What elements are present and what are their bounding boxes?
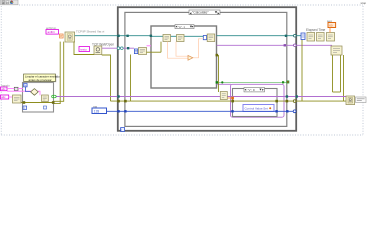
svg-text:"V", D: "V", D [248,88,255,92]
case selector label [189,10,220,15]
svg-text:antes de procesar: antes de procesar [29,78,52,82]
pink terminal (string control) [1,83,11,91]
case structure [125,12,287,126]
while loop [118,7,296,131]
svg-text:"Calculate": "Calculate" [192,11,209,15]
N count terminal [24,83,28,87]
combo constant in structure4 [243,105,274,112]
pane dotted boundary [1,5,363,135]
for loop (small, bottom left) [23,83,54,113]
green boolean wire [217,81,287,83]
wire: error from wait node down [102,55,111,101]
wire: error branch in case [130,55,132,102]
olive tunnels [23,54,289,104]
unbundle blue + read node cluster [134,48,146,55]
pink wire to structure3 [147,45,152,47]
structure 4 selector label [244,88,265,93]
wire: error up to node S1 [160,42,162,53]
violet wire y84.3 [217,83,231,85]
orange stub into structure4 [228,97,233,99]
inner case structure 4 [233,89,278,117]
svg-text:abc: abc [1,95,6,99]
svg-text:texto: texto [81,47,88,51]
toolbar fragment top-left [1,0,19,5]
wire: error loop right leg from node D [340,55,342,92]
structure 3 selector label [175,25,194,29]
wire: error U bottom [333,91,341,93]
wire: error inside for loop [21,102,54,104]
wire: TCP refnum to Elapsed Time cluster [217,35,301,37]
blue numeric constant (left bottom) [92,104,107,113]
small blue glyph bottom right of for loop [44,106,47,109]
structure3: blue glyph + node S3 [203,34,214,42]
violet wire structure3 to elapsed-time cluster [217,44,332,46]
orange conversion node [60,34,64,38]
teal tunnels [117,35,287,37]
svg-text:TCP/IP Shared Var.vi: TCP/IP Shared Var.vi [76,29,105,33]
wire: main error line across loop [111,100,344,102]
white label box right of node E [356,97,367,103]
yellow free label comment [24,74,61,82]
wire: error pair from TCP node down [54,42,64,102]
wire: error into node E [344,55,347,101]
node D [331,46,342,55]
svg-text:60: 60 [329,23,333,27]
svg-text:Elapsed Time: Elapsed Time [306,28,326,32]
wire: violet connection id [102,47,134,49]
TCP Wait On Listener node [94,46,102,55]
wire: error from elapsed cluster down [301,40,303,102]
violet reference frame around structure 4 [231,84,285,117]
string constant (top left) [46,26,59,34]
svg-text:abc: abc [1,87,6,91]
pale orange wires in structure3 [168,39,204,58]
blue wire into diamond [26,87,31,92]
pink terminal 2 [1,95,9,99]
wire: TCP refnum inside structure 3 [151,35,207,37]
node L (write) [13,95,22,103]
i iteration terminal [23,106,27,110]
svg-text:"A", 1: "A", 1 [178,25,185,29]
structure3: node S1 [163,35,171,42]
structure3: node S2 [177,35,185,42]
wire: error TCP node to wait node [74,42,94,55]
svg-text:stop: stop [361,1,367,5]
while loop iteration terminal [121,128,125,132]
blue wire y111.8 [107,110,295,112]
time diamond node [31,89,39,96]
inner case structure 3 [151,26,217,88]
elapsed time nodes R1 R2 R3 [307,33,335,42]
svg-text:anfitri: anfitri [48,30,55,34]
wire: error down structure 3 right edge [218,55,220,92]
svg-text:Control Value:Set: Control Value:Set [245,107,268,111]
svg-text:N: N [24,83,26,87]
node E (bottom right) [346,96,355,105]
svg-text:128: 128 [94,109,100,113]
wire: error from TCP node down to for loop [54,42,60,104]
TCP Open Connection node [65,32,75,42]
node R (read, inside for loop) [42,95,49,102]
violet long wire y97 [54,96,346,98]
wire: error into structure 3 node [147,51,162,53]
small dark node on pink wire [14,87,18,90]
string constant 2 [79,47,90,52]
elapsed time cluster: blue unbundle [301,33,305,40]
node C (between structures) [220,92,227,100]
pink wires from terminals [7,89,40,97]
loop condition terminal [282,81,284,83]
svg-text:pt: pt [7,2,9,5]
wire: TCP refnum into case [75,35,151,37]
wire: error loop left leg from node D [332,55,334,92]
comparison triangle node [188,55,193,60]
svg-text:TCP Wait/Open: TCP Wait/Open [92,43,114,47]
